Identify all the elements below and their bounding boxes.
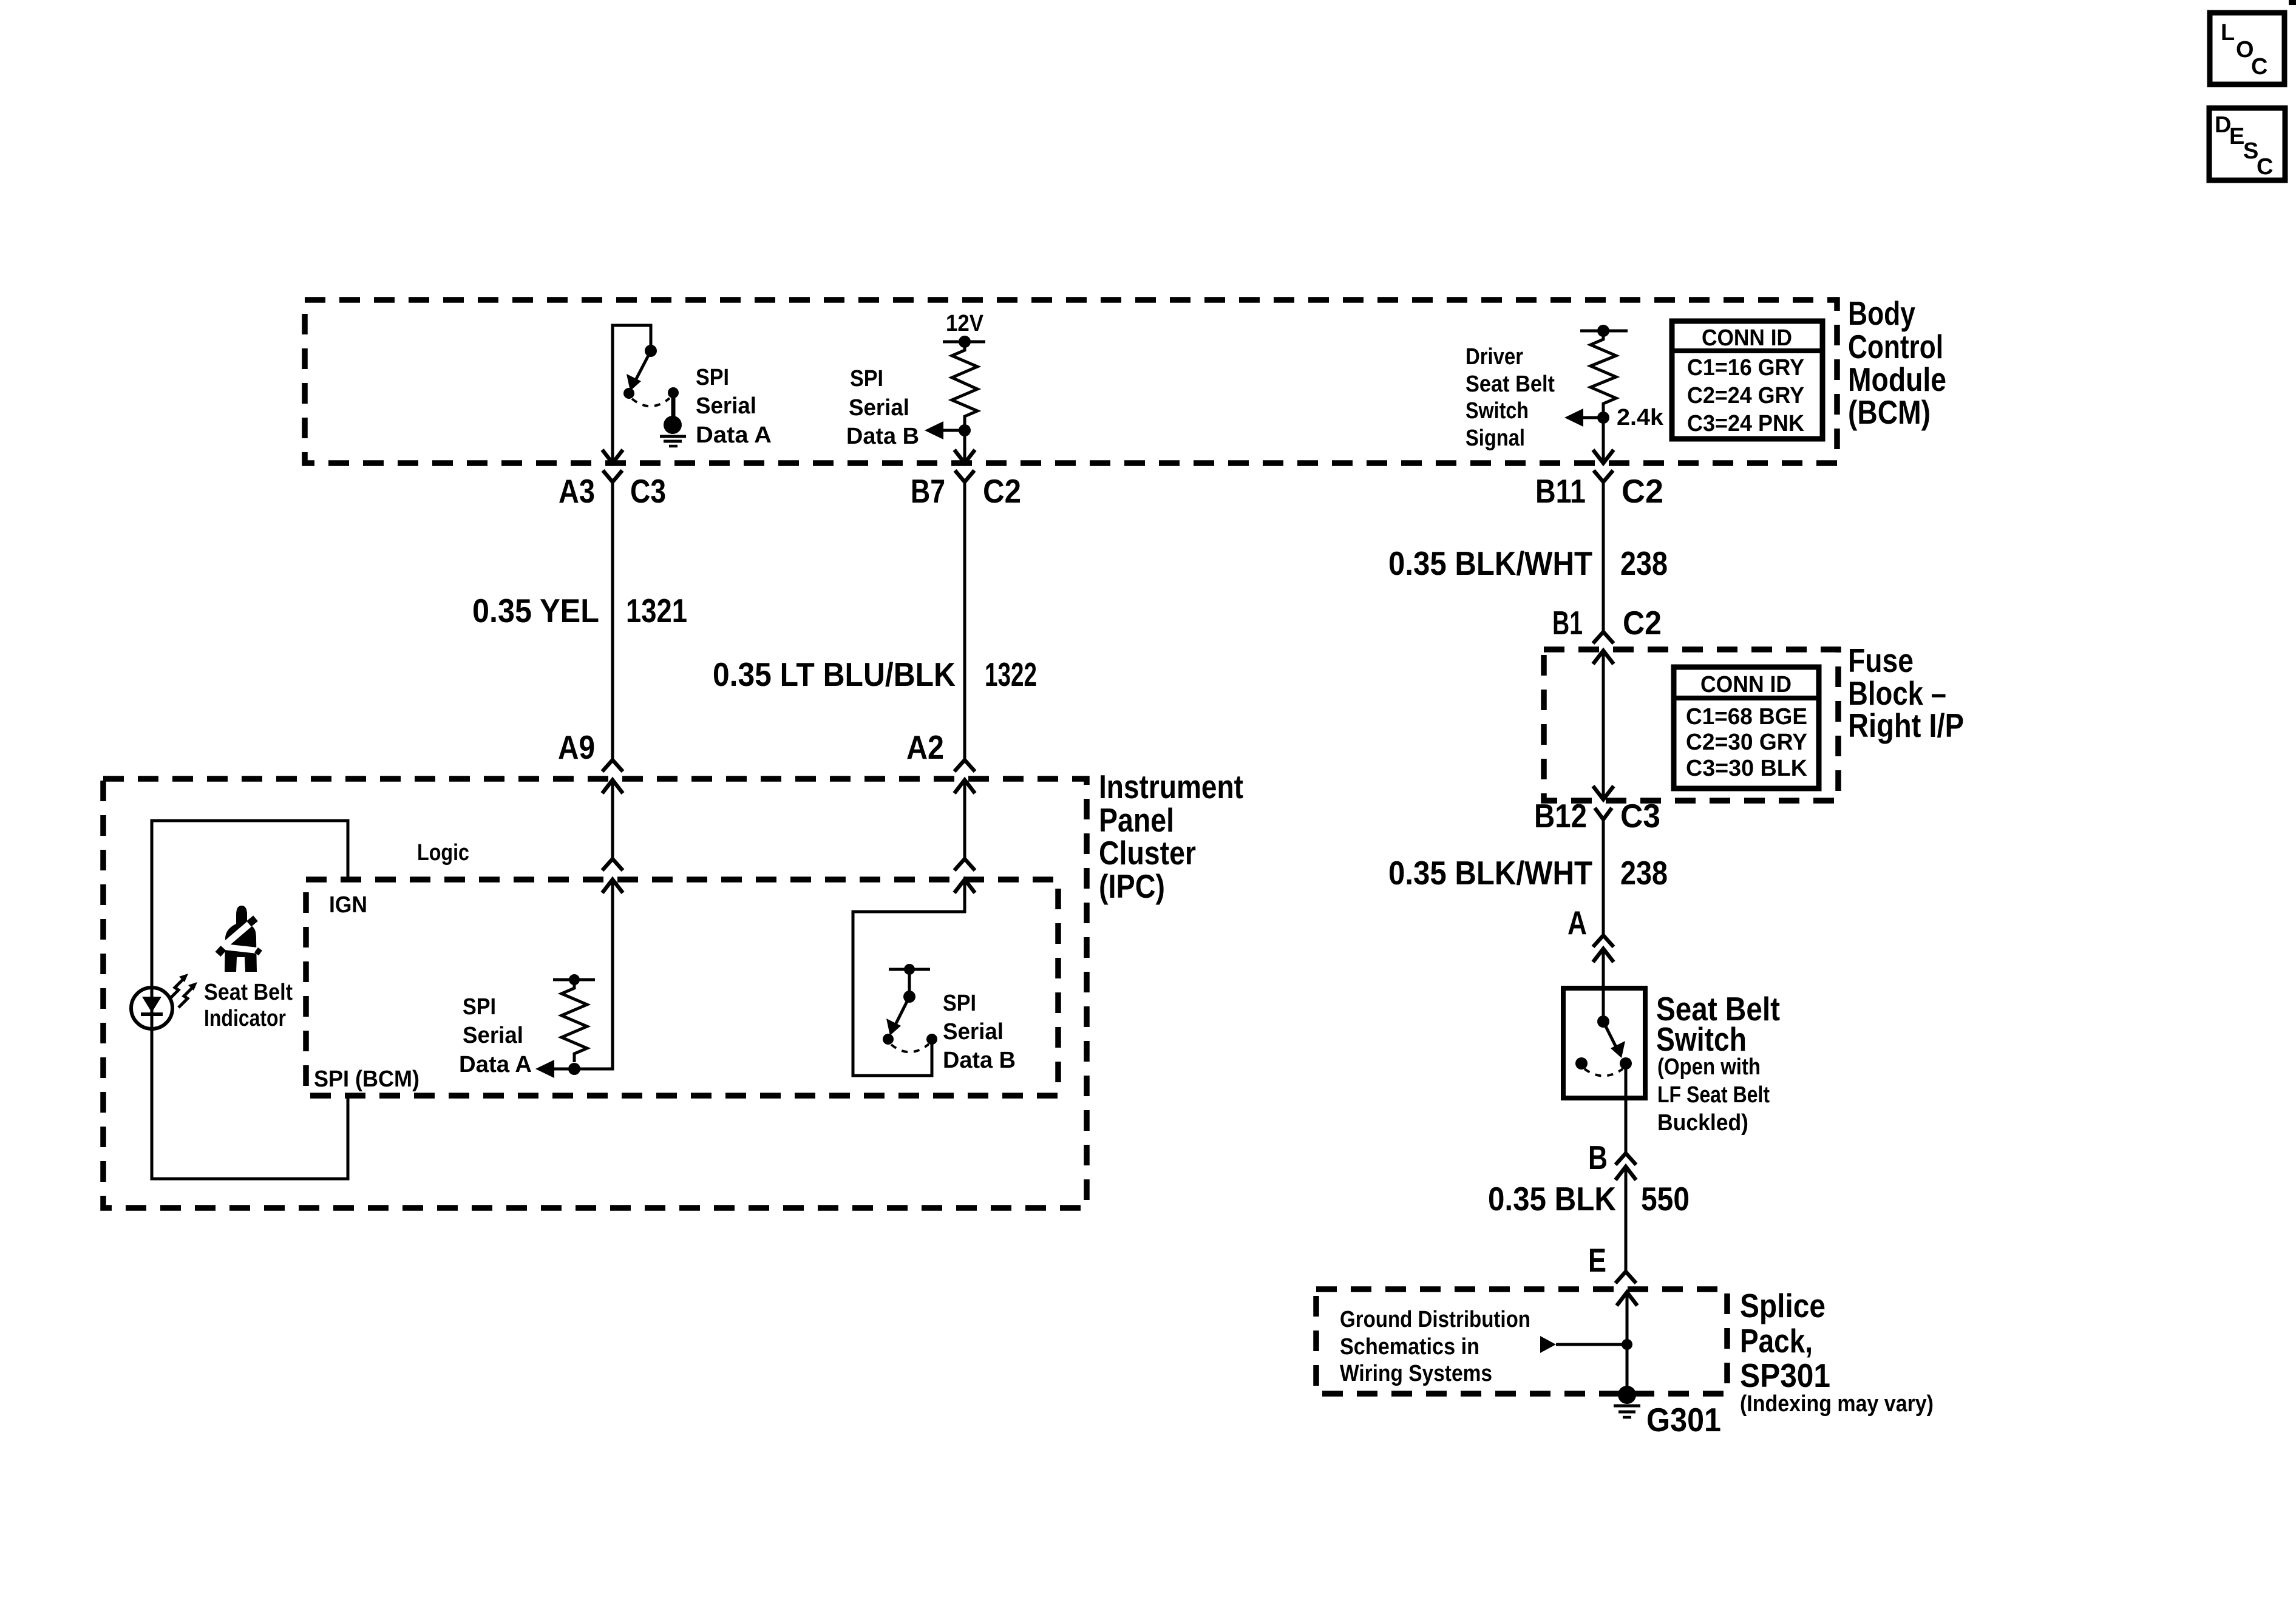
Splice Pack SP301 dashed enclosure xyxy=(1316,1289,1727,1394)
switch S-A travel dashed arc xyxy=(632,398,670,406)
svg-text:12V: 12V xyxy=(946,311,984,336)
resistor bottom node xyxy=(1597,412,1609,424)
resistor R-B (BCM pull-up) xyxy=(952,342,977,425)
svg-text:SPI (BCM): SPI (BCM) xyxy=(314,1066,419,1092)
svg-text:C1=16 GRY: C1=16 GRY xyxy=(1687,355,1804,381)
svg-text:1321: 1321 xyxy=(626,592,687,629)
svg-text:C2: C2 xyxy=(1622,472,1663,510)
svg-text:Indicator: Indicator xyxy=(204,1006,286,1031)
seat belt person icon xyxy=(218,906,260,972)
splice junction node xyxy=(1622,1339,1632,1350)
svg-text:2.4k: 2.4k xyxy=(1617,405,1664,430)
switch title xyxy=(1656,990,1780,1058)
switch S-B stub xyxy=(908,969,911,997)
wire: 0.35 BLK 550 (circuit 550) xyxy=(1625,1167,1628,1272)
svg-text:B11: B11 xyxy=(1535,472,1586,510)
svg-text:B7: B7 xyxy=(911,472,945,510)
svg-text:238: 238 xyxy=(1620,544,1668,582)
svg-text:Switch: Switch xyxy=(1656,1020,1747,1058)
branch wire to ground distribution note xyxy=(1540,1336,1627,1353)
seat belt indicator circuit solid box xyxy=(152,821,348,1179)
svg-text:Serial: Serial xyxy=(696,393,756,419)
connector B11/C2 fork xyxy=(1594,470,1613,482)
svg-text:Data A: Data A xyxy=(696,422,772,448)
svg-text:A3: A3 xyxy=(559,472,595,510)
connector fork at fuse block border xyxy=(1593,632,1614,643)
svg-text:C1=68 BGE: C1=68 BGE xyxy=(1686,704,1807,730)
svg-text:0.35 BLK/WHT: 0.35 BLK/WHT xyxy=(1388,544,1592,582)
page corner mark xyxy=(2289,0,2296,5)
label: SPI Serial Data A (BCM) xyxy=(696,365,772,448)
ground symbol (BCM Data A) xyxy=(660,436,686,446)
wire through fuse block xyxy=(1602,651,1605,799)
wire: BCM internal L-wire to Data A switch xyxy=(613,325,651,463)
svg-text:B12: B12 xyxy=(1534,797,1587,835)
svg-text:Wiring Systems: Wiring Systems xyxy=(1340,1361,1492,1386)
resistor R-2.4k xyxy=(1591,331,1616,412)
fuse CONN ID table xyxy=(1674,667,1819,788)
switch S-B right contact node xyxy=(926,1034,937,1045)
svg-text:Buckled): Buckled) xyxy=(1657,1110,1748,1136)
switch note text xyxy=(1657,1054,1770,1136)
svg-text:SP301: SP301 xyxy=(1740,1357,1830,1394)
splice pack title xyxy=(1740,1287,1830,1394)
svg-text:Cluster: Cluster xyxy=(1099,834,1196,872)
svg-text:C: C xyxy=(2251,54,2267,80)
wire: 0.35 BLK/WHT 238 (upper) xyxy=(1602,482,1605,632)
svg-text:Control: Control xyxy=(1848,328,1943,365)
switch S-B pivot node xyxy=(903,991,915,1003)
wire inside splice pack xyxy=(1626,1292,1629,1395)
connector fork at Logic border (wire B) xyxy=(954,859,975,870)
Seat Belt Switch box xyxy=(1563,988,1645,1098)
wire out of switch (pin B) xyxy=(1625,1063,1628,1153)
svg-text:Seat Belt: Seat Belt xyxy=(1466,371,1555,397)
svg-text:Fuse: Fuse xyxy=(1848,642,1914,679)
wire A exit arrow at BCM border xyxy=(602,450,623,463)
switch S-B top bar xyxy=(889,968,930,971)
label: Driver Seat Belt Switch Signal xyxy=(1466,344,1555,451)
svg-text:CONN ID: CONN ID xyxy=(1700,672,1792,697)
BCM CONN ID table xyxy=(1672,321,1822,439)
svg-text:Signal: Signal xyxy=(1466,425,1525,451)
svg-text:1322: 1322 xyxy=(985,656,1037,693)
ground symbol G301 xyxy=(1614,1406,1640,1417)
Instrument Panel Cluster (IPC) dashed enclosure xyxy=(103,779,1087,1208)
connector B12/C3 fork below fuse block xyxy=(1595,808,1612,819)
svg-text:0.35 BLK: 0.35 BLK xyxy=(1488,1180,1616,1218)
wire into switch box xyxy=(1602,949,1605,1022)
IPC pull-up rail bar xyxy=(553,978,595,981)
wire B exit arrow at BCM border xyxy=(954,450,975,463)
svg-text:SPI: SPI xyxy=(850,366,883,392)
entry arrow into fuse block xyxy=(1593,651,1614,664)
wire: 0.35 LT BLU/BLK 1322 (circuit 1322) xyxy=(963,482,966,760)
svg-text:Module: Module xyxy=(1848,361,1946,398)
svg-text:(IPC): (IPC) xyxy=(1099,867,1165,905)
BCM signal rail bar xyxy=(1580,330,1628,333)
signal tap arrow (left) xyxy=(1564,408,1603,427)
svg-text:A9: A9 xyxy=(558,728,595,766)
switch S-B left contact node xyxy=(883,1034,894,1045)
connector fork at Logic border (wire A) xyxy=(602,859,623,870)
svg-text:238: 238 xyxy=(1620,854,1668,892)
wire A to resistor (Logic box) xyxy=(553,880,613,1069)
svg-text:Splice: Splice xyxy=(1740,1287,1826,1324)
svg-text:0.35 YEL: 0.35 YEL xyxy=(472,592,599,629)
label: Ground Distribution Schematics in Wiring Systems xyxy=(1340,1307,1530,1386)
svg-text:Data B: Data B xyxy=(846,424,919,449)
svg-text:(BCM): (BCM) xyxy=(1848,393,1931,431)
svg-text:C3: C3 xyxy=(1620,797,1660,835)
wire R inside BCM xyxy=(1602,418,1605,463)
svg-text:Data A: Data A xyxy=(459,1052,532,1077)
connector arrow at switch pin A xyxy=(1593,949,1614,962)
LOC reference box xyxy=(2210,13,2284,84)
Fuse Block dashed enclosure xyxy=(1544,649,1838,801)
resistor bottom node xyxy=(959,424,971,436)
svg-text:Serial: Serial xyxy=(849,395,909,421)
svg-text:Data B: Data B xyxy=(943,1048,1016,1073)
svg-text:0.35 BLK/WHT: 0.35 BLK/WHT xyxy=(1388,854,1592,892)
switch S-A left contact node xyxy=(623,388,634,399)
wire B inside BCM xyxy=(963,430,966,463)
connector arrow at switch pin B xyxy=(1615,1167,1636,1180)
svg-text:LF Seat Belt: LF Seat Belt xyxy=(1657,1082,1770,1108)
BCM title text xyxy=(1848,294,1946,431)
connector fork at switch pin A xyxy=(1593,935,1614,947)
svg-text:A: A xyxy=(1567,904,1587,941)
DESC reference box xyxy=(2209,108,2285,180)
svg-text:Serial: Serial xyxy=(943,1019,1004,1045)
LED diode triangle xyxy=(142,997,161,1012)
connector fork at switch pin B xyxy=(1615,1153,1636,1165)
svg-text:(Open with: (Open with xyxy=(1657,1054,1761,1080)
switch S-B top node xyxy=(904,964,915,975)
svg-text:Instrument: Instrument xyxy=(1099,768,1243,805)
entry arrow into Logic box (wire A) xyxy=(602,880,623,893)
switch SBS travel dashed arc xyxy=(1584,1069,1623,1076)
ground dot xyxy=(664,416,682,434)
svg-text:Switch: Switch xyxy=(1466,398,1529,424)
svg-text:C3=30 BLK: C3=30 BLK xyxy=(1686,756,1808,781)
switch S-B arm with arrowhead xyxy=(886,997,909,1036)
svg-text:SPI: SPI xyxy=(943,991,976,1016)
svg-text:Seat Belt: Seat Belt xyxy=(204,980,293,1005)
svg-text:Pack,: Pack, xyxy=(1740,1322,1813,1360)
svg-text:C2=30 GRY: C2=30 GRY xyxy=(1686,730,1807,755)
svg-text:B: B xyxy=(1588,1139,1608,1176)
switch SBS arm with arrowhead xyxy=(1603,1022,1625,1058)
connector B7/C2 fork xyxy=(955,470,974,482)
fuse block title xyxy=(1848,642,1964,744)
Data A tap arrow (IPC) xyxy=(535,1060,554,1078)
Data B tap arrow (left) xyxy=(925,421,965,439)
svg-text:Logic: Logic xyxy=(417,840,469,866)
connector fork at IPC border (wire B) xyxy=(954,760,975,771)
svg-text:Serial: Serial xyxy=(463,1023,523,1048)
entry arrow into Logic box (wire B) xyxy=(954,880,975,893)
svg-text:Schematics in: Schematics in xyxy=(1340,1334,1479,1360)
svg-text:C2=24 GRY: C2=24 GRY xyxy=(1687,383,1804,408)
exit arrow at fuse block bottom xyxy=(1593,786,1614,799)
LED circle (Seat Belt Indicator) xyxy=(131,988,172,1029)
svg-text:C3: C3 xyxy=(630,472,666,510)
ground node G301 xyxy=(1618,1386,1636,1404)
label: SPI Serial Data A (IPC) xyxy=(459,994,532,1077)
12V rail bar xyxy=(943,341,985,344)
wire B L-path to switch (Logic box) xyxy=(853,880,965,1076)
wire R exit arrow at BCM border xyxy=(1593,450,1614,463)
svg-text:550: 550 xyxy=(1641,1180,1690,1218)
svg-text:G301: G301 xyxy=(1646,1401,1721,1439)
svg-text:C2: C2 xyxy=(983,472,1021,510)
entry arrow into splice pack xyxy=(1617,1292,1637,1306)
svg-text:SPI: SPI xyxy=(463,994,496,1020)
svg-text:Right I/P: Right I/P xyxy=(1848,707,1964,744)
rail node xyxy=(1597,325,1609,337)
svg-text:Ground Distribution: Ground Distribution xyxy=(1340,1307,1530,1332)
svg-text:C: C xyxy=(2257,154,2273,180)
LED light rays xyxy=(169,974,197,1008)
switch S-B travel dashed arc xyxy=(891,1044,929,1052)
svg-text:(Indexing may vary): (Indexing may vary) xyxy=(1740,1391,1934,1417)
label: Seat Belt Indicator xyxy=(204,980,293,1031)
svg-text:A2: A2 xyxy=(906,728,944,766)
switch SBS pivot node xyxy=(1597,1015,1609,1028)
LED cathode bar xyxy=(141,1012,163,1016)
wire: 0.35 BLK/WHT 238 (lower) xyxy=(1602,819,1605,935)
svg-text:C2: C2 xyxy=(1623,604,1662,642)
svg-text:L: L xyxy=(2221,20,2235,46)
Body Control Module (BCM) dashed enclosure xyxy=(305,300,1837,463)
rail node (IPC resistor top) xyxy=(569,974,580,985)
Logic dashed box inside IPC xyxy=(306,880,1058,1096)
svg-text:0.35 LT BLU/BLK: 0.35 LT BLU/BLK xyxy=(713,656,956,693)
switch S-A pivot node xyxy=(645,345,657,357)
wire B inside IPC xyxy=(963,780,966,859)
label: SPI Serial Data B (BCM) xyxy=(846,366,919,449)
svg-text:CONN ID: CONN ID xyxy=(1702,325,1792,351)
switch S-A arm with arrowhead xyxy=(627,351,651,391)
connector fork at IPC border (wire A) xyxy=(602,760,623,771)
svg-text:E: E xyxy=(1588,1241,1606,1279)
resistor R-A (IPC) xyxy=(562,980,587,1062)
switch SBS left contact node xyxy=(1575,1057,1588,1070)
wire A inside IPC xyxy=(611,780,614,859)
switch S-A right contact node xyxy=(668,387,679,398)
switch SBS right contact node xyxy=(1620,1057,1632,1070)
svg-text:IGN: IGN xyxy=(329,892,367,918)
svg-text:Panel: Panel xyxy=(1099,801,1174,839)
connector fork at splice pin E xyxy=(1615,1272,1636,1283)
svg-text:Body: Body xyxy=(1848,294,1915,332)
label: SPI Serial Data B (IPC) xyxy=(943,991,1016,1073)
svg-text:C3=24 PNK: C3=24 PNK xyxy=(1687,411,1805,436)
svg-text:B1: B1 xyxy=(1552,604,1583,642)
connector A3/C3 fork xyxy=(603,470,622,482)
entry arrow into IPC (wire B) xyxy=(954,780,975,793)
resistor bottom node on wire xyxy=(568,1063,580,1075)
entry arrow into IPC (wire A) xyxy=(602,780,623,793)
svg-text:E: E xyxy=(2229,124,2244,149)
ground stub of Data A switch xyxy=(671,393,676,418)
12V rail node xyxy=(959,336,971,348)
IPC title text xyxy=(1099,768,1243,905)
svg-text:Driver: Driver xyxy=(1466,344,1523,370)
wire: 0.35 YEL 1321 (circuit 1321) xyxy=(611,482,614,760)
svg-text:SPI: SPI xyxy=(696,365,729,390)
